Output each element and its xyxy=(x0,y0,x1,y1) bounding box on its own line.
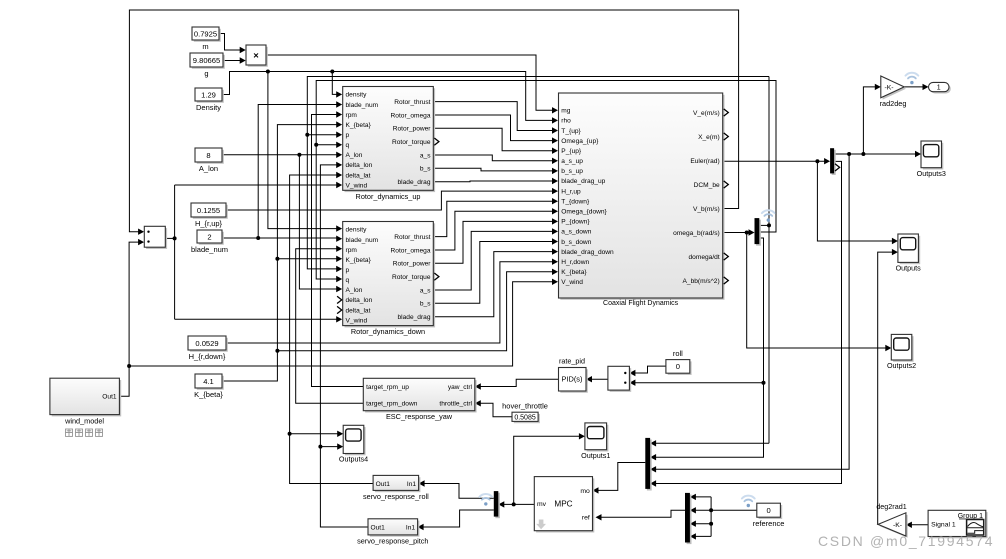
svg-text:Omega_{up}: Omega_{up} xyxy=(561,138,599,145)
wire mg product to Coaxial mg input xyxy=(266,55,552,110)
svg-text:blade_num: blade_num xyxy=(346,237,379,244)
wire Euler mux out2 down to MPC mux in4 xyxy=(656,161,842,483)
wire Rotor_dynamics_down Rotor_omega to Coaxial Omega_down xyxy=(433,211,552,250)
port chevron X_e (unconnected) xyxy=(724,133,729,140)
svg-text:Euler(rad): Euler(rad) xyxy=(690,158,719,165)
wire mv branch up to Outputs1 xyxy=(514,436,580,504)
wire g constant to product xyxy=(223,60,240,62)
wire Rotor_dynamics_down b_s to Coaxial b_s_down xyxy=(433,242,552,304)
svg-text:Outputs1: Outputs1 xyxy=(581,451,610,460)
svg-text:target_rpm_down: target_rpm_down xyxy=(366,401,418,408)
node Euler branch xyxy=(815,159,819,163)
icon MPC gray arrow xyxy=(536,520,546,530)
svg-text:Outputs2: Outputs2 xyxy=(887,361,916,370)
wire tap up to rad2deg gain xyxy=(863,87,875,154)
svg-text:-K-: -K- xyxy=(893,522,902,529)
port chevron A_bb (unconnected) xyxy=(724,277,729,284)
svg-text:Rotor_omega: Rotor_omega xyxy=(391,112,431,119)
svg-text:Outputs4: Outputs4 xyxy=(339,455,368,464)
wire omega_b to demux xyxy=(723,232,749,234)
subsystem Rotor_dynamics_up xyxy=(345,88,436,192)
svg-text:p: p xyxy=(346,132,350,139)
node reference branch B xyxy=(709,522,713,526)
svg-text:Out1: Out1 xyxy=(376,481,391,488)
svg-text:servo_response_pitch: servo_response_pitch xyxy=(357,537,428,546)
wire Rotor_dynamics_down blade_drag to Coaxial blade_drag_down xyxy=(433,252,552,317)
wire servo demux out1 to servo_response_roll In1 xyxy=(424,484,494,499)
outport 1 xyxy=(930,84,951,93)
wire concat out to rotor V_wind ports xyxy=(165,237,174,239)
wire Rotor_dynamics_up Rotor_omega to Coaxial Omega_up xyxy=(433,115,552,141)
svg-text:K_{beta}: K_{beta} xyxy=(194,390,223,399)
svg-text:2: 2 xyxy=(207,232,211,241)
wire target_rpm_up to Rotor_dynamics_up rpm xyxy=(312,115,364,387)
svg-text:mo: mo xyxy=(580,488,590,495)
wire H_r_up to Coaxial xyxy=(226,191,552,210)
svg-text:Outputs: Outputs xyxy=(896,264,922,273)
svg-text:-K-: -K- xyxy=(884,85,893,92)
port chevron delta_lon down (unconnected) xyxy=(337,296,342,303)
wire Rotor_dynamics_up blade_drag to Coaxial blade_drag_up xyxy=(433,180,552,183)
svg-text:K_{beta}: K_{beta} xyxy=(346,122,372,129)
subsystem ESC_response_yaw (flipped) xyxy=(365,380,477,412)
svg-text:p: p xyxy=(346,267,350,274)
constant g xyxy=(192,55,225,69)
svg-text:blade_drag: blade_drag xyxy=(398,179,431,186)
svg-text:Coaxial Flight Dynamics: Coaxial Flight Dynamics xyxy=(603,300,679,307)
svg-text:Rotor_power: Rotor_power xyxy=(393,261,432,268)
mux MPC mo inputs xyxy=(647,440,652,491)
svg-text:DCM_be: DCM_be xyxy=(694,182,720,189)
wire Rotor_dynamics_up Rotor_power to Coaxial P_up xyxy=(433,128,552,150)
svg-text:X_e(m): X_e(m) xyxy=(698,134,720,141)
badge wireless mv xyxy=(479,494,492,506)
svg-text:omega_b(rad/s): omega_b(rad/s) xyxy=(673,230,720,237)
svg-text:A_lon: A_lon xyxy=(346,152,363,159)
svg-text:0: 0 xyxy=(766,506,770,515)
node q branch xyxy=(314,143,318,147)
wire V_wind distribution to Coaxial V_wind xyxy=(129,282,552,366)
wire omega_b branch down to Outputs2 xyxy=(747,233,886,349)
svg-text:A_lon: A_lon xyxy=(199,164,218,173)
svg-text:Outputs3: Outputs3 xyxy=(917,169,946,178)
svg-text:CSDN @m0_71994574: CSDN @m0_71994574 xyxy=(818,533,994,549)
wire m constant to product xyxy=(219,34,240,51)
node p demux out xyxy=(767,223,771,227)
svg-text:V_e(m/s): V_e(m/s) xyxy=(693,110,720,117)
constant reference xyxy=(759,505,783,519)
subsystem Coaxial Flight Dynamics xyxy=(560,95,724,300)
subsystem wind_model xyxy=(52,380,122,416)
wire PID out to ESC yaw_ctrl xyxy=(480,379,558,386)
svg-text:a_s_down: a_s_down xyxy=(561,229,591,236)
svg-text:ref: ref xyxy=(582,515,590,522)
svg-text:Rotor_power: Rotor_power xyxy=(393,126,432,133)
wire servo_response_roll Out1 to delta_lat xyxy=(290,175,374,484)
svg-text:blade_num: blade_num xyxy=(346,102,379,109)
svg-text:throttle_ctrl: throttle_ctrl xyxy=(439,401,472,408)
mux MPC ref inputs xyxy=(687,495,692,545)
svg-text:0.7925: 0.7925 xyxy=(194,29,217,38)
wire Signal Builder to deg2rad1 xyxy=(911,524,928,526)
node p branch xyxy=(305,133,309,137)
svg-text:roll: roll xyxy=(673,349,683,358)
svg-text:servo_response_roll: servo_response_roll xyxy=(363,492,429,501)
constant K_beta xyxy=(197,376,224,390)
constant blade_num xyxy=(199,232,224,245)
node rad2deg tap xyxy=(861,152,865,156)
block Signal Builder Group 1 / Signal 1 xyxy=(930,512,988,538)
node omega_b branch xyxy=(745,231,749,235)
wire servo_response_pitch Out1 to delta_lon xyxy=(320,165,368,527)
svg-text:0.5085: 0.5085 xyxy=(514,415,536,422)
svg-text:H_r,down: H_r,down xyxy=(561,259,589,266)
node blade_num branch xyxy=(256,236,260,240)
subsystem servo_response_pitch (flipped) xyxy=(370,521,420,537)
wire density to Rotor_dynamics_down xyxy=(268,72,337,229)
svg-text:q: q xyxy=(346,142,350,149)
svg-text:g: g xyxy=(204,69,208,78)
wire Rotor_dynamics_down a_s to Coaxial a_s_down xyxy=(433,231,552,290)
svg-text:In1: In1 xyxy=(406,524,415,531)
wire MPC mux out to MPC mo xyxy=(598,463,645,491)
scope Outputs4 xyxy=(345,427,366,455)
node Euler comp branch A xyxy=(847,152,851,156)
subsystem servo_response_roll (flipped) xyxy=(375,477,421,492)
svg-text:wind_model: wind_model xyxy=(64,417,104,426)
wire K_beta to rotor blocks and Coaxial xyxy=(222,125,337,381)
svg-text:Out1: Out1 xyxy=(102,394,117,401)
svg-text:8: 8 xyxy=(206,151,210,160)
svg-text:q: q xyxy=(346,277,350,284)
wire rad2deg to outport 1 xyxy=(904,86,923,88)
svg-text:delta_lon: delta_lon xyxy=(346,162,373,169)
svg-text:target_rpm_up: target_rpm_up xyxy=(366,384,409,391)
svg-text:Rotor_dynamics_down: Rotor_dynamics_down xyxy=(351,327,425,336)
svg-text:V_wind: V_wind xyxy=(561,279,583,286)
wire target_rpm_down to Rotor_dynamics_down rpm xyxy=(296,249,364,404)
wire Rotor_dynamics_up a_s to Coaxial a_s_up xyxy=(433,155,552,161)
svg-text:b_s_down: b_s_down xyxy=(561,239,591,246)
constant Density xyxy=(197,90,224,103)
svg-text:A_bb(m/s^2): A_bb(m/s^2) xyxy=(683,278,720,285)
wire concat in2 from wind junction xyxy=(129,242,139,366)
scope Outputs1 xyxy=(587,425,609,452)
svg-text:K_{beta}: K_{beta} xyxy=(346,257,372,264)
wire Euler(rad) output to selector mux xyxy=(723,160,825,162)
svg-text:rpm: rpm xyxy=(346,112,358,119)
wire density to Rotor_dynamics_up xyxy=(332,72,336,95)
block product (m*g) xyxy=(248,47,268,67)
port chevron Euler mux aux xyxy=(835,164,840,171)
svg-text:V_wind: V_wind xyxy=(346,317,368,324)
wire A_lon to rotor blocks xyxy=(222,154,337,156)
svg-text:b_s: b_s xyxy=(420,301,431,308)
badge wireless reference xyxy=(742,496,755,508)
svg-text:rate_pid: rate_pid xyxy=(559,356,585,365)
svg-text:In1: In1 xyxy=(407,481,416,488)
label gust model (chinese) xyxy=(66,429,73,436)
svg-text:Rotor_omega: Rotor_omega xyxy=(391,247,431,254)
svg-text:deg2rad1: deg2rad1 xyxy=(876,502,906,511)
svg-text:P_{up}: P_{up} xyxy=(561,148,582,155)
wire ref mux out to MPC ref xyxy=(601,510,685,517)
subsystem Rotor_dynamics_down xyxy=(345,223,436,327)
svg-text:blade_drag_up: blade_drag_up xyxy=(561,178,605,185)
svg-text:rho: rho xyxy=(561,118,571,125)
block concatenate V_b/wind xyxy=(146,228,167,249)
svg-text:b_s: b_s xyxy=(420,166,431,173)
wire wind_model Out1 up to junction xyxy=(119,366,129,396)
wire Rotor_dynamics_up Rotor_thrust to Coaxial T_up xyxy=(433,102,552,131)
wire V_b feedback loop (V_b out -> top frame -> left side) xyxy=(129,10,738,232)
wire deg2rad1 up to Outputs in2 xyxy=(878,252,893,524)
svg-text:T_{up}: T_{up} xyxy=(561,128,581,135)
badge wireless rad2deg xyxy=(906,73,919,85)
svg-text:0: 0 xyxy=(676,362,680,371)
node concat output branch xyxy=(173,236,177,240)
svg-text:b_s_up: b_s_up xyxy=(561,168,583,175)
svg-text:reference: reference xyxy=(753,519,785,528)
svg-text:PID(s): PID(s) xyxy=(562,375,583,384)
svg-text:H_{r,up}: H_{r,up} xyxy=(195,219,223,228)
scope Outputs3 xyxy=(923,143,944,170)
svg-text:m: m xyxy=(202,42,208,51)
wire Rotor_dynamics_down Rotor_power to Coaxial P_down xyxy=(433,221,552,263)
svg-text:Signal 1: Signal 1 xyxy=(931,522,956,529)
svg-text:density: density xyxy=(346,92,368,99)
svg-text:P_{down}: P_{down} xyxy=(561,219,590,226)
wire p to MPC mux in1 xyxy=(656,442,769,444)
wire servo demux out2 to servo_response_pitch In1 xyxy=(423,510,494,527)
port chevron DCM_be (unconnected) xyxy=(724,181,729,188)
svg-text:Rotor_torque: Rotor_torque xyxy=(392,274,431,281)
gain rad2deg xyxy=(883,78,906,100)
svg-text:0.0529: 0.0529 xyxy=(195,339,218,348)
svg-text:a_s_up: a_s_up xyxy=(561,158,583,165)
port chevron Rotor_torque up (unconnected) xyxy=(434,138,439,145)
svg-text:blade_num: blade_num xyxy=(191,245,228,254)
constant H_r_up xyxy=(193,205,228,219)
svg-text:V_wind: V_wind xyxy=(346,182,368,189)
svg-text:mg: mg xyxy=(561,108,570,115)
svg-text:A_lon: A_lon xyxy=(346,287,363,294)
wire q rate from demux to rotor q inputs xyxy=(316,81,776,280)
node r branch xyxy=(762,381,766,385)
svg-text:a_s: a_s xyxy=(420,152,431,159)
wire reference to ref mux inputs xyxy=(711,509,757,511)
node delta_lat tap xyxy=(288,432,292,436)
wire delta_lat tap to Outputs4 in1 xyxy=(290,433,338,435)
svg-text:K_{beta}: K_{beta} xyxy=(561,269,587,276)
svg-text:rad2deg: rad2deg xyxy=(880,99,907,108)
wire Rotor_dynamics_up b_s to Coaxial b_s_up xyxy=(433,168,552,171)
block MPC controller xyxy=(536,478,594,532)
svg-text:MPC: MPC xyxy=(554,499,572,508)
wire blade_num to rotor blocks xyxy=(222,237,337,239)
node density branch B xyxy=(330,70,334,74)
port chevron delta_lat down (unconnected) xyxy=(337,306,342,313)
port chevron V_e (unconnected) xyxy=(724,109,729,116)
svg-text:Density: Density xyxy=(196,103,221,112)
wire r rate from demux down to rate_pid sum and MPC mux in2 xyxy=(656,238,764,457)
svg-text:density: density xyxy=(346,227,368,234)
svg-text:×: × xyxy=(253,51,259,62)
block sum/concat before rate_pid (flipped) xyxy=(610,368,632,392)
svg-text:blade_drag_down: blade_drag_down xyxy=(561,249,614,256)
node mv branch xyxy=(512,502,516,506)
demux omega_b p/q/r xyxy=(756,220,761,246)
wire hover_throttle to ESC throttle_ctrl xyxy=(480,403,512,417)
node delta_lon tap xyxy=(318,445,322,449)
svg-text:0.1255: 0.1255 xyxy=(197,206,220,215)
demux servo commands xyxy=(495,493,500,519)
wire H_r_down to Coaxial xyxy=(226,262,552,343)
svg-text:Rotor_thrust: Rotor_thrust xyxy=(394,99,430,106)
svg-text:1.29: 1.29 xyxy=(201,90,216,99)
wire Density to Coaxial rho + rotor density ports xyxy=(222,72,552,121)
wire sum to rate_pid PID xyxy=(592,378,608,380)
svg-text:blade_drag: blade_drag xyxy=(398,314,431,321)
svg-text:H_r,up: H_r,up xyxy=(561,188,581,195)
block rate_pid PID(s) (flipped) xyxy=(560,369,588,393)
svg-text:domega/dt: domega/dt xyxy=(689,254,720,261)
wire Euler branch to Outputs in1 xyxy=(817,161,892,241)
svg-text:T_{down}: T_{down} xyxy=(561,198,590,205)
svg-text:Rotor_dynamics_up: Rotor_dynamics_up xyxy=(356,192,421,201)
svg-text:ESC_response_yaw: ESC_response_yaw xyxy=(386,412,453,421)
mux Euler selector xyxy=(832,150,836,175)
wire MPC mv out to servo demux xyxy=(504,503,535,505)
svg-text:Out1: Out1 xyxy=(371,524,386,531)
svg-text:1: 1 xyxy=(937,85,941,92)
wire roll constant to sum xyxy=(635,366,666,373)
svg-text:9.80665: 9.80665 xyxy=(193,56,220,65)
node K_beta branch coax xyxy=(275,349,279,353)
svg-text:delta_lat: delta_lat xyxy=(346,172,371,179)
constant hover_throttle xyxy=(514,414,540,423)
svg-text:a_s: a_s xyxy=(420,287,431,294)
svg-text:H_{r,down}: H_{r,down} xyxy=(189,352,226,361)
constant A_lon xyxy=(197,150,224,164)
scope Outputs xyxy=(900,236,921,264)
gain deg2rad1 (flipped) xyxy=(880,515,908,538)
port chevron Rotor_torque down (unconnected) xyxy=(434,273,439,280)
wire Euler comp down to MPC mux in3 xyxy=(656,154,850,469)
node wind/V_wind junction xyxy=(127,364,131,368)
svg-text:Rotor_thrust: Rotor_thrust xyxy=(394,234,430,241)
constant H_r_down xyxy=(190,338,228,352)
svg-text:hover_throttle: hover_throttle xyxy=(502,402,548,411)
node K_beta branch down rotor xyxy=(275,257,279,261)
constant roll xyxy=(668,361,692,375)
svg-text:V_b(m/s): V_b(m/s) xyxy=(693,206,720,213)
node density branch A xyxy=(266,70,270,74)
svg-text:mv: mv xyxy=(537,501,547,508)
svg-text:Rotor_torque: Rotor_torque xyxy=(392,139,431,146)
wire Euler mux out to Outputs3 xyxy=(834,153,915,155)
port chevron domega/dt (unconnected) xyxy=(724,253,729,260)
svg-text:Omega_{down}: Omega_{down} xyxy=(561,209,607,216)
svg-text:delta_lat: delta_lat xyxy=(346,307,371,314)
svg-text:rpm: rpm xyxy=(346,247,358,254)
svg-text:delta_lon: delta_lon xyxy=(346,297,373,304)
constant m xyxy=(194,29,221,42)
wire p rate from demux to rotor p inputs xyxy=(759,224,769,226)
wire Rotor_dynamics_down Rotor_thrust to Coaxial T_down xyxy=(433,201,552,236)
node reference branch A xyxy=(709,508,713,512)
svg-text:yaw_ctrl: yaw_ctrl xyxy=(448,384,473,391)
node A_lon branch xyxy=(297,153,301,157)
badge wireless omega_b xyxy=(762,210,775,222)
wire delta_lon tap to Outputs4 in2 xyxy=(320,446,337,448)
scope Outputs2 xyxy=(893,336,914,362)
svg-text:4.1: 4.1 xyxy=(203,377,214,386)
